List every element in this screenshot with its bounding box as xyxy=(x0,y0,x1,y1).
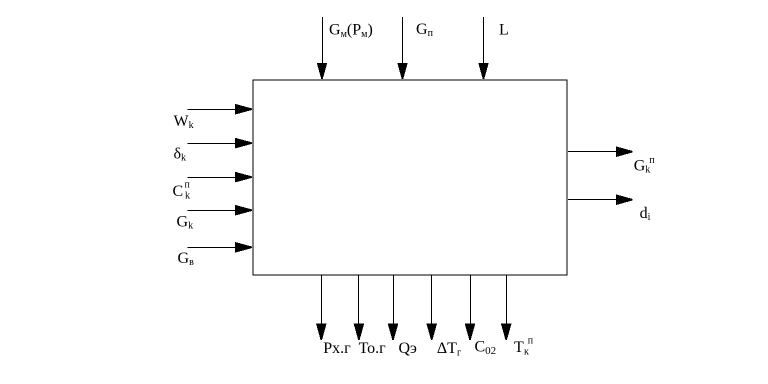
svg-text:Gk: Gk xyxy=(177,214,194,232)
svg-text:Wk: Wk xyxy=(174,113,194,131)
wire: top input 3 (L) xyxy=(483,17,485,65)
arrowhead: bottom output 5 xyxy=(465,324,476,340)
svg-text:Gм(Pм): Gм(Pм) xyxy=(329,21,373,40)
svg-text:G: G xyxy=(634,158,646,175)
svg-text:k: k xyxy=(645,165,650,176)
wire: bottom output 1 (Рх.г) xyxy=(321,276,323,325)
arrowhead: top input 2 xyxy=(397,63,407,79)
arrowhead: bottom output 3 xyxy=(388,324,399,340)
wire: left input 2 (δk) xyxy=(187,143,237,145)
svg-text:п: п xyxy=(528,336,534,347)
wire: top input 2 (Gп) xyxy=(402,17,404,65)
wire: bottom output 3 (Qэ) xyxy=(393,276,395,325)
arrowhead: bottom output 4 xyxy=(426,324,437,340)
svg-text:k: k xyxy=(185,190,190,201)
svg-text:di: di xyxy=(640,205,651,223)
svg-text:к: к xyxy=(524,347,529,358)
arrowhead: top input 3 xyxy=(478,63,488,79)
wire: bottom output 2 (То.г) xyxy=(358,276,360,325)
svg-text:п: п xyxy=(649,155,655,166)
svg-text:C: C xyxy=(173,183,184,200)
arrowhead: bottom output 6 xyxy=(501,324,512,340)
wire: bottom output 6 (Ткп) xyxy=(506,276,508,325)
svg-text:Gв: Gв xyxy=(178,250,195,268)
svg-text:п: п xyxy=(185,180,191,191)
wire: bottom output 5 (С02) xyxy=(470,276,472,325)
arrowhead: left input 4 xyxy=(235,205,252,216)
arrowhead: top input 1 xyxy=(317,63,327,79)
svg-text:С02: С02 xyxy=(475,339,497,358)
svg-text:Gп: Gп xyxy=(416,21,434,39)
block: process box xyxy=(253,80,567,275)
arrowhead: bottom output 1 xyxy=(316,324,327,340)
svg-text:Qэ: Qэ xyxy=(399,340,418,357)
svg-text:Т: Т xyxy=(514,339,524,356)
svg-text:ΔТг: ΔТг xyxy=(437,340,461,359)
svg-text:L: L xyxy=(499,21,509,38)
svg-text:Рх.г: Рх.г xyxy=(323,340,351,357)
wire: left input 4 (Gk) xyxy=(187,210,237,212)
arrowhead: bottom output 2 xyxy=(354,324,365,340)
arrowhead: right output 1 xyxy=(616,146,633,157)
arrowhead: left input 2 xyxy=(235,138,252,149)
svg-text:δk: δk xyxy=(174,146,187,164)
wire: top input 1 (Gм) xyxy=(322,17,324,65)
arrowhead: left input 1 xyxy=(235,104,252,115)
wire: left input 3 (Cпk) xyxy=(187,177,237,179)
wire: left input 5 (Gв) xyxy=(187,247,237,249)
wire: right output 2 (di) xyxy=(568,199,618,201)
wire: bottom output 4 (ΔТг) xyxy=(431,276,433,325)
arrowhead: right output 2 xyxy=(616,194,633,205)
arrowhead: left input 5 xyxy=(235,242,252,253)
svg-text:То.г: То.г xyxy=(359,340,387,357)
wire: right output 1 (Gkп) xyxy=(568,151,618,153)
wire: left input 1 (Wk) xyxy=(187,109,237,111)
arrowhead: left input 3 xyxy=(235,172,252,183)
